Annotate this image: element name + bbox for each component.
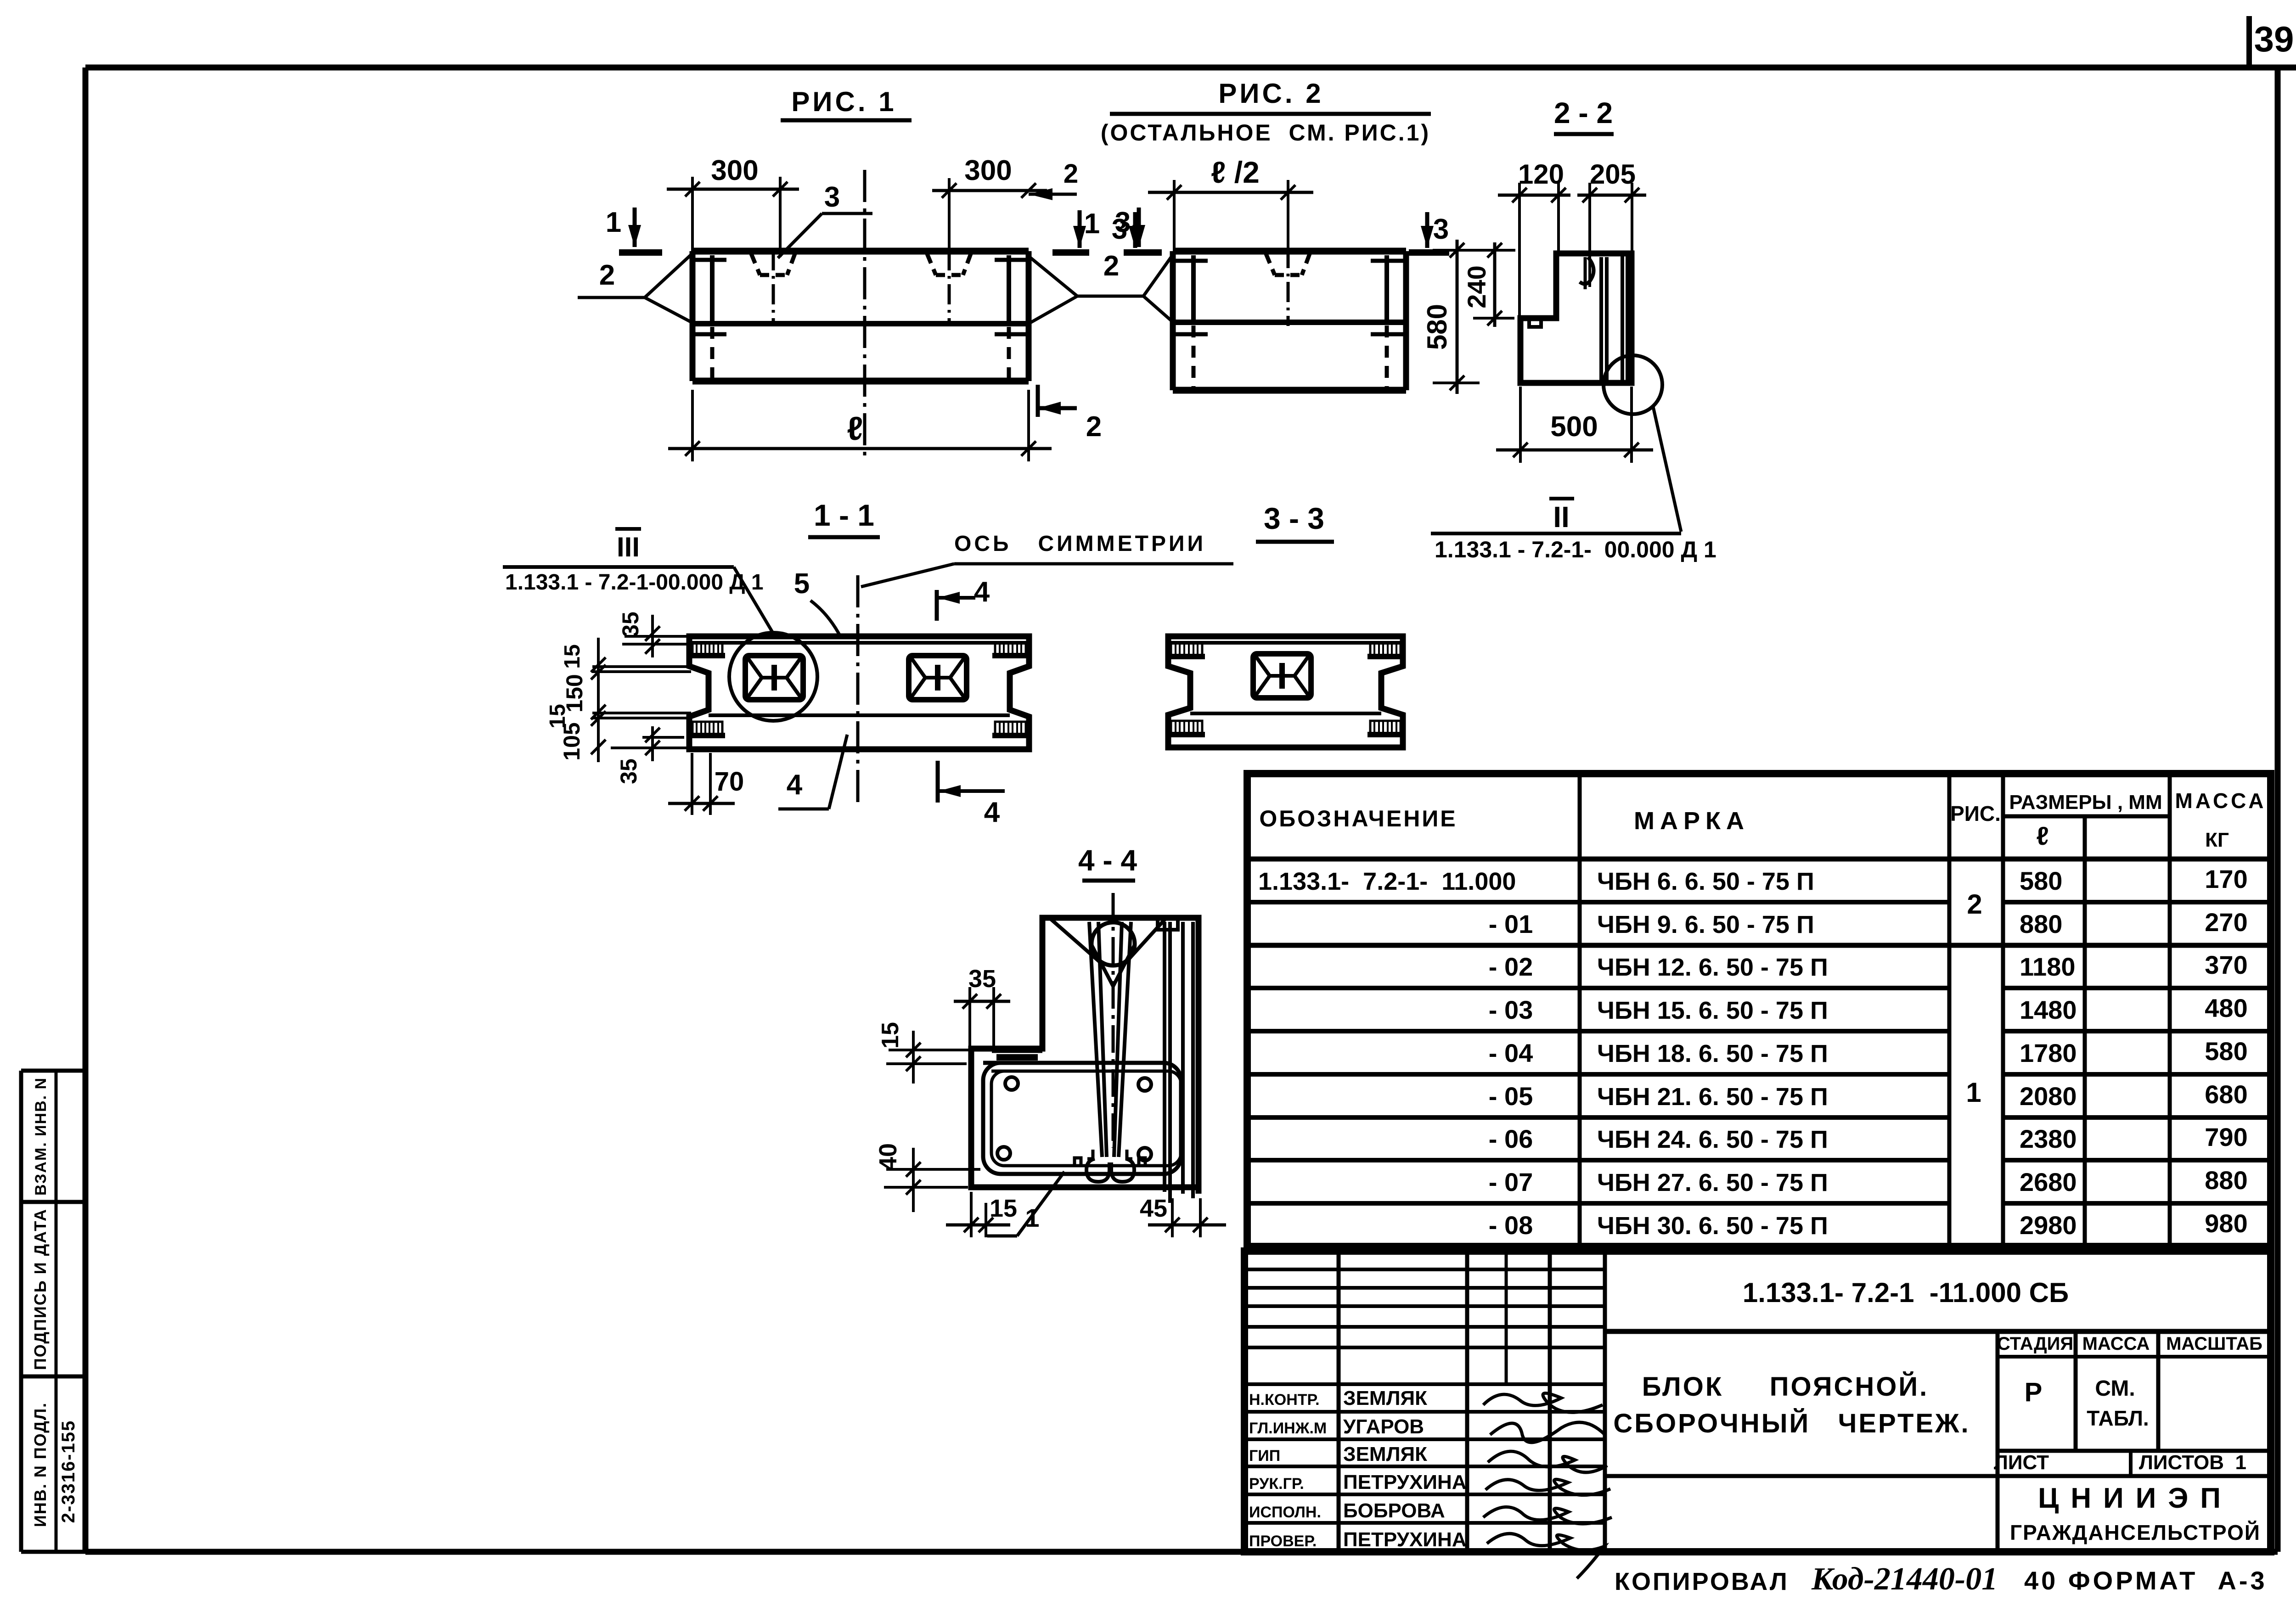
fig2 left web solid	[1191, 255, 1196, 322]
sec1-1 centerline	[856, 575, 860, 807]
svg-text:- 03: - 03	[1489, 995, 1533, 1024]
svg-text:ℓ: ℓ	[847, 410, 863, 447]
fig2 right web dashed	[1385, 326, 1389, 388]
svg-text:1.133.1 - 7.2-1- 00.000 Д 1: 1.133.1 - 7.2-1- 00.000 Д 1	[1435, 537, 1716, 562]
svg-text:ГЛ.ИНЖ.М: ГЛ.ИНЖ.М	[1249, 1420, 1327, 1437]
svg-text:РИС. 1: РИС. 1	[791, 86, 896, 117]
svg-text:15: 15	[560, 644, 585, 668]
fig1 right end web dashed	[1007, 327, 1011, 379]
svg-text:240: 240	[1462, 265, 1491, 308]
svg-text:370: 370	[2205, 950, 2247, 979]
svg-text:980: 980	[2205, 1209, 2247, 1238]
fig1 right end web solid	[1007, 255, 1011, 324]
svg-text:35: 35	[968, 965, 996, 993]
label II underline	[1431, 532, 1681, 535]
det4-4 cage top line extension	[983, 1061, 1165, 1065]
svg-text:КОПИРОВАЛ: КОПИРОВАЛ	[1615, 1568, 1789, 1595]
svg-text:БОБРОВА: БОБРОВА	[1343, 1499, 1445, 1522]
svg-text:70: 70	[715, 767, 744, 797]
svg-text:3: 3	[1433, 213, 1449, 245]
svg-text:2680: 2680	[2020, 1168, 2077, 1196]
fig1 centerline	[863, 170, 867, 459]
sec1-1 top strip line	[689, 641, 1029, 645]
svg-text:СМ.: СМ.	[2095, 1376, 2135, 1401]
svg-text:ИНВ. N ПОДЛ.: ИНВ. N ПОДЛ.	[31, 1402, 50, 1527]
svg-text:45: 45	[1140, 1195, 1167, 1222]
svg-text:35: 35	[618, 612, 643, 637]
sec1-1 pad bottom-right	[995, 722, 1026, 735]
svg-text:2: 2	[1086, 411, 1102, 443]
svg-text:РИС. 2: РИС. 2	[1218, 78, 1323, 109]
fig1 mid line	[692, 321, 1029, 326]
fig1 slot 1 (dashed trapezoid)	[751, 254, 760, 275]
fig1 dim 2 gap	[1029, 193, 1077, 196]
svg-text:2 - 2: 2 - 2	[1554, 96, 1613, 129]
sec1-1 dim line B	[597, 638, 600, 762]
svg-text:580: 580	[1422, 304, 1452, 350]
svg-text:- 06: - 06	[1489, 1124, 1533, 1153]
svg-text:880: 880	[2205, 1166, 2247, 1195]
svg-text:Р: Р	[2025, 1377, 2043, 1407]
sec1-1 outline	[689, 636, 1029, 749]
sec2-2 detail circle II	[1604, 355, 1662, 414]
svg-text:300: 300	[964, 155, 1012, 186]
os simmetrii leader	[954, 562, 1233, 566]
svg-text:II: II	[1553, 500, 1570, 533]
svg-text:ПРОВЕР.: ПРОВЕР.	[1249, 1533, 1317, 1550]
fig1 dim L bottom	[668, 447, 1052, 450]
svg-text:2-3316-155: 2-3316-155	[58, 1420, 79, 1523]
det4-4 top right notch	[1158, 918, 1178, 930]
sec2-2 small step	[1529, 318, 1541, 327]
sec1-1 washer left	[745, 656, 803, 700]
svg-text:2080: 2080	[2020, 1082, 2077, 1111]
sec1-1 pad top-right	[995, 643, 1026, 656]
sec3-3 pad bottom-left	[1171, 721, 1202, 735]
svg-text:КГ: КГ	[2205, 829, 2229, 851]
svg-text:3: 3	[1112, 213, 1127, 245]
svg-text:- 05: - 05	[1489, 1082, 1533, 1111]
sec3-3 bottom strip line	[1190, 712, 1381, 715]
svg-text:СТАДИЯ: СТАДИЯ	[1997, 1334, 2073, 1354]
svg-text:35: 35	[616, 758, 642, 784]
svg-text:Н.КОНТР.: Н.КОНТР.	[1249, 1391, 1320, 1409]
svg-text:300: 300	[711, 155, 758, 186]
svg-text:270: 270	[2205, 908, 2247, 937]
svg-text:МАССА: МАССА	[2175, 789, 2267, 813]
svg-text:2: 2	[1103, 250, 1119, 282]
det4-4 centerline	[1112, 893, 1115, 1148]
det4-4 lifting eye circle	[1092, 922, 1135, 966]
sec3-3 pad bottom-right	[1370, 721, 1401, 735]
svg-text:15: 15	[877, 1022, 904, 1049]
svg-text:ПОДПИСЬ И ДАТА: ПОДПИСЬ И ДАТА	[31, 1208, 50, 1370]
det4-4 rebar dot 1	[1005, 1077, 1018, 1090]
svg-text:1.133.1 - 7.2-1-00.000 Д 1: 1.133.1 - 7.2-1-00.000 Д 1	[505, 570, 764, 595]
svg-text:ЛИСТОВ 1: ЛИСТОВ 1	[2139, 1451, 2246, 1474]
stamp signatures	[1483, 1393, 1603, 1413]
sec2-2 outline L-shape	[1520, 253, 1632, 383]
svg-text:БЛОК ПОЯСНОЙ.: БЛОК ПОЯСНОЙ.	[1642, 1372, 1929, 1402]
svg-text:480: 480	[2205, 994, 2247, 1022]
svg-text:МАРКА: МАРКА	[1634, 807, 1750, 835]
svg-text:- 04: - 04	[1489, 1039, 1533, 1067]
sec1-1 detail circle III	[729, 633, 817, 721]
det4-4 rebar cage outer	[983, 1063, 1181, 1174]
fig1 slot 2 (dashed trapezoid)	[927, 254, 936, 275]
svg-text:- 01: - 01	[1489, 909, 1533, 938]
svg-text:ЧБН 27. 6. 50 - 75 П: ЧБН 27. 6. 50 - 75 П	[1597, 1169, 1828, 1196]
det4-4 right channel lines	[1163, 922, 1166, 1192]
fig1 left end notch lines	[692, 258, 726, 262]
svg-text:4 - 4: 4 - 4	[1078, 844, 1137, 877]
svg-text:СБОРОЧНЫЙ ЧЕРТЕЖ.: СБОРОЧНЫЙ ЧЕРТЕЖ.	[1613, 1409, 1970, 1438]
svg-text:1780: 1780	[2020, 1039, 2077, 1067]
det4-4 rebar dot 3	[997, 1147, 1010, 1160]
sec2-2 top hook	[1580, 257, 1594, 284]
svg-text:- 07: - 07	[1489, 1168, 1533, 1196]
fig1 dim 300 left	[667, 188, 799, 191]
fig1 left end web dashed	[710, 327, 715, 379]
svg-text:ЗЕМЛЯК: ЗЕМЛЯК	[1343, 1387, 1427, 1409]
svg-text:40: 40	[874, 1143, 902, 1171]
svg-text:ℓ /2: ℓ /2	[1211, 155, 1260, 189]
svg-text:3: 3	[824, 181, 840, 213]
fig2 mid line	[1173, 320, 1406, 325]
fig1 dim 300 right	[932, 189, 1047, 192]
svg-text:1: 1	[606, 207, 621, 238]
svg-text:1480: 1480	[2020, 995, 2077, 1024]
svg-text:- 08: - 08	[1489, 1211, 1533, 1240]
det4-4 bearing pad detail	[996, 1054, 1038, 1061]
svg-text:ЧБН 6. 6. 50 - 75 П: ЧБН 6. 6. 50 - 75 П	[1597, 868, 1814, 895]
svg-text:1180: 1180	[2020, 952, 2076, 981]
svg-text:ЧБН 21. 6. 50 - 75 П: ЧБН 21. 6. 50 - 75 П	[1597, 1083, 1828, 1111]
svg-text:- 02: - 02	[1489, 952, 1533, 981]
svg-text:ЧБН 12. 6. 50 - 75 П: ЧБН 12. 6. 50 - 75 П	[1597, 954, 1828, 981]
svg-text:580: 580	[2020, 866, 2062, 895]
svg-text:5: 5	[794, 568, 810, 600]
fig2 right notch lines	[1371, 259, 1406, 263]
sec1-1 bottom strip line	[709, 713, 1010, 717]
svg-text:ℓ: ℓ	[2036, 821, 2048, 850]
svg-text:39: 39	[2254, 19, 2294, 59]
fig2 left notch lines	[1173, 259, 1208, 263]
svg-text:ГИП: ГИП	[1249, 1447, 1280, 1465]
svg-text:1 - 1: 1 - 1	[814, 498, 874, 532]
sec1-1 dim line A	[651, 615, 654, 657]
svg-text:ОСЬ СИММЕТРИИ: ОСЬ СИММЕТРИИ	[954, 532, 1206, 556]
svg-text:4: 4	[984, 797, 1000, 828]
svg-text:(ОСТАЛЬНОЕ СМ. РИС.1): (ОСТАЛЬНОЕ СМ. РИС.1)	[1101, 120, 1430, 146]
svg-text:170: 170	[2205, 865, 2247, 893]
det4-4 hairpin feet	[1086, 1159, 1109, 1182]
svg-text:40 ФОРМАТ А-3: 40 ФОРМАТ А-3	[2024, 1566, 2268, 1595]
svg-text:ЧБН 9. 6. 50 - 75 П: ЧБН 9. 6. 50 - 75 П	[1597, 911, 1814, 938]
fig1 right end notch lines	[995, 258, 1029, 262]
svg-text:2980: 2980	[2020, 1211, 2077, 1240]
svg-text:РУК.ГР.: РУК.ГР.	[1249, 1475, 1304, 1493]
svg-text:РАЗМЕРЫ , ММ: РАЗМЕРЫ , ММ	[2009, 791, 2162, 814]
sec3-3 washer	[1253, 654, 1311, 698]
svg-text:2: 2	[1064, 159, 1078, 189]
svg-text:ВЗАМ. ИНВ. N: ВЗАМ. ИНВ. N	[32, 1077, 50, 1196]
title block grid	[1244, 1251, 2271, 1552]
svg-text:ТАБЛ.: ТАБЛ.	[2087, 1406, 2149, 1430]
fig2 slot (dashed trapezoid)	[1266, 254, 1275, 275]
svg-text:1: 1	[1084, 208, 1100, 240]
fig1 left end web solid	[710, 255, 715, 324]
det4-4 rebar dot 2	[1138, 1078, 1151, 1091]
det4-4 funnel recess	[1049, 918, 1101, 963]
svg-text:ИСПОЛН.: ИСПОЛН.	[1249, 1504, 1321, 1521]
svg-text:1.133.1- 7.2-1 -11.000 СБ: 1.133.1- 7.2-1 -11.000 СБ	[1743, 1277, 2069, 1308]
svg-text:2: 2	[599, 259, 615, 291]
svg-text:ЧБН 24. 6. 50 - 75 П: ЧБН 24. 6. 50 - 75 П	[1597, 1126, 1828, 1153]
fig2 block outline	[1173, 248, 1406, 255]
sec3-3 top strip line	[1168, 641, 1403, 645]
det4-4 hairpin legs	[1089, 922, 1102, 1157]
svg-text:ЧБН 18. 6. 50 - 75 П: ЧБН 18. 6. 50 - 75 П	[1597, 1040, 1828, 1067]
sec1-1 left ext lines	[625, 635, 689, 638]
svg-text:2: 2	[1967, 889, 1982, 920]
fig2 right web solid	[1384, 255, 1389, 322]
svg-text:МАССА: МАССА	[2082, 1334, 2150, 1354]
svg-text:880: 880	[2020, 909, 2062, 938]
page number tick	[2246, 16, 2252, 69]
fig1 block outline	[692, 248, 1029, 255]
svg-text:1: 1	[1966, 1077, 1981, 1108]
svg-text:Код-21440-01: Код-21440-01	[1811, 1561, 1998, 1597]
svg-text:680: 680	[2205, 1080, 2247, 1109]
parts table grid	[1247, 774, 2271, 1246]
svg-text:ЧБН 30. 6. 50 - 75 П: ЧБН 30. 6. 50 - 75 П	[1597, 1212, 1828, 1240]
left stamp boxes	[21, 1069, 85, 1073]
fig2 dim L/2	[1148, 191, 1313, 194]
svg-text:УГАРОВ: УГАРОВ	[1343, 1415, 1424, 1438]
det4-4 eye keel	[1092, 945, 1113, 986]
svg-text:III: III	[617, 532, 640, 562]
svg-text:ПЕТРУХИНА: ПЕТРУХИНА	[1343, 1528, 1467, 1551]
svg-text:4: 4	[787, 769, 803, 801]
sec3-3 outline	[1168, 636, 1403, 747]
sheet frame border	[85, 65, 2296, 71]
sec1-1 pad top-left	[692, 643, 722, 656]
svg-text:205: 205	[1590, 159, 1636, 190]
svg-text:790: 790	[2205, 1123, 2247, 1151]
III underline	[503, 565, 734, 569]
svg-text:ОБОЗНАЧЕНИЕ: ОБОЗНАЧЕНИЕ	[1259, 806, 1457, 831]
det4-4 concrete outline	[971, 918, 1199, 1194]
svg-text:500: 500	[1550, 411, 1598, 443]
sec3-3 pad top-left	[1171, 643, 1202, 657]
det4-4 rebar dot 4	[1138, 1148, 1151, 1161]
svg-text:ЛИСТ: ЛИСТ	[1994, 1451, 2049, 1474]
sec3-3 pad top-right	[1370, 643, 1401, 657]
svg-text:2380: 2380	[2020, 1124, 2077, 1153]
svg-text:ЧБН 15. 6. 50 - 75 П: ЧБН 15. 6. 50 - 75 П	[1597, 997, 1828, 1024]
sec1-1 washer right	[909, 656, 967, 700]
svg-text:ПЕТРУХИНА: ПЕТРУХИНА	[1343, 1471, 1467, 1493]
svg-text:3 - 3: 3 - 3	[1264, 501, 1324, 535]
svg-text:4: 4	[974, 576, 990, 608]
fig2 left web dashed	[1192, 326, 1196, 388]
svg-text:ЦНИИЭП: ЦНИИЭП	[2038, 1482, 2233, 1514]
sec1-1 pad bottom-left	[692, 722, 722, 735]
svg-text:580: 580	[2205, 1037, 2247, 1066]
svg-text:МАСШТАБ: МАСШТАБ	[2166, 1334, 2262, 1354]
svg-text:РИС.: РИС.	[1950, 802, 2001, 825]
det4-4 rebar cage inner	[991, 1071, 1181, 1166]
det4-4 bottom hook marks	[1075, 1158, 1081, 1166]
III leader diagonal	[734, 567, 776, 638]
svg-text:ГРАЖДАНСЕЛЬСТРОЙ: ГРАЖДАНСЕЛЬСТРОЙ	[2010, 1521, 2261, 1544]
svg-text:1.133.1- 7.2-1- 11.000: 1.133.1- 7.2-1- 11.000	[1258, 868, 1516, 895]
svg-text:105: 105	[559, 722, 585, 760]
svg-text:ЗЕМЛЯК: ЗЕМЛЯК	[1343, 1443, 1427, 1465]
sec2-2 detail leader	[1653, 407, 1681, 532]
section mark 2 bottom right	[1036, 385, 1040, 417]
sec2-2 inner verticals	[1599, 257, 1603, 381]
